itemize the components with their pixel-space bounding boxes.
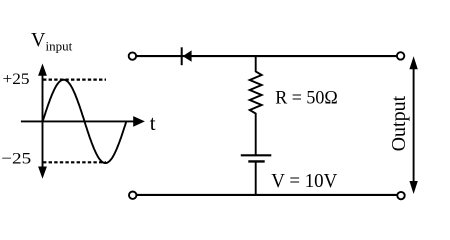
svg-text:R = 50Ω: R = 50Ω — [275, 87, 338, 108]
output span arrow (double-headed) — [409, 56, 417, 194]
svg-text:t: t — [150, 111, 156, 135]
dashed level line -25 — [43, 161, 106, 163]
svg-text:Vinput: Vinput — [31, 29, 73, 54]
top wire — [136, 55, 397, 57]
time axis (horizontal, right arrow) — [21, 116, 145, 127]
output terminal bottom — [397, 192, 404, 199]
diode D1 — [182, 47, 192, 65]
input terminal bottom — [129, 192, 136, 199]
svg-text:Output: Output — [388, 95, 410, 151]
bottom wire — [136, 194, 397, 196]
voltage axis (vertical, double arrow) — [38, 64, 47, 179]
svg-text:−25: −25 — [1, 151, 31, 168]
dashed level line +25 — [43, 78, 106, 80]
sine wave Vinput — [43, 80, 127, 163]
output terminal top — [397, 52, 404, 59]
resistor R — [250, 57, 262, 155]
svg-text:+25: +25 — [3, 71, 30, 88]
svg-text:V = 10V: V = 10V — [271, 171, 337, 192]
input terminal top — [129, 52, 136, 59]
battery V — [241, 155, 271, 195]
